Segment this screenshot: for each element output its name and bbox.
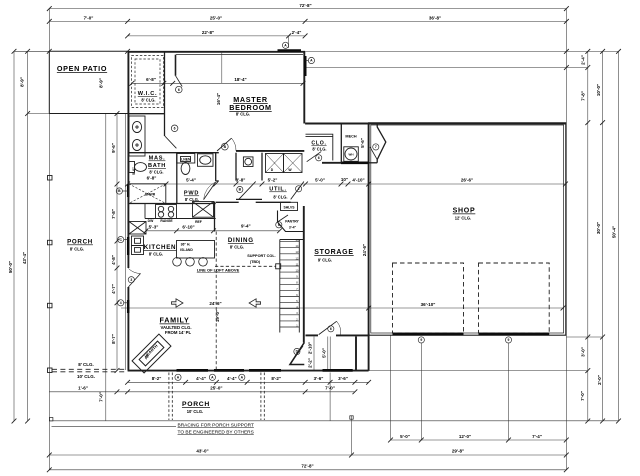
svg-text:A: A: [211, 376, 214, 380]
svg-text:9'-6": 9'-6": [111, 143, 116, 153]
svg-text:8'-2": 8'-2": [152, 376, 162, 381]
interior dim line y184: [125, 182, 568, 187]
wic stub wall: [175, 55, 177, 76]
right vertical dim x618.5: [616, 51, 621, 423]
bottom dim 72-8 y469.8: [47, 467, 569, 472]
room label pwd: [184, 191, 199, 202]
svg-text:B: B: [239, 188, 242, 192]
mech west wall: [340, 124, 342, 163]
wing interior jamb lines: [314, 337, 330, 371]
label line of loft: [197, 268, 240, 273]
refrigerator: [193, 202, 214, 218]
note bracing: [178, 423, 254, 436]
svg-text:6: 6: [318, 156, 320, 160]
entry door leaf: [370, 147, 377, 160]
svg-text:ISLAND: ISLAND: [180, 248, 193, 252]
porch ceiling labels: [77, 362, 95, 379]
bottom-right thin line y370.6: [369, 370, 588, 372]
svg-text:3: 3: [130, 278, 132, 282]
dim text 25'-0: [210, 16, 222, 21]
svg-text:4'-4": 4'-4": [196, 376, 206, 381]
svg-text:12' CLG.: 12' CLG.: [455, 216, 471, 221]
rotated dim 2'-4 right: [581, 55, 586, 65]
storage bottom wall: [306, 334, 369, 336]
svg-text:A: A: [284, 44, 287, 48]
svg-text:LINE OF LOFT ABOVE: LINE OF LOFT ABOVE: [197, 268, 240, 273]
svg-text:8' CLG.: 8' CLG.: [70, 247, 84, 252]
rotated dim 7'-0 right: [580, 391, 585, 401]
svg-text:PORCH: PORCH: [67, 239, 93, 246]
svg-text:16'-4": 16'-4": [216, 93, 221, 105]
svg-text:8' CLG.: 8' CLG.: [312, 147, 326, 152]
top wall window: [278, 49, 302, 52]
svg-text:LNEN: LNEN: [181, 158, 191, 162]
circled A right: [306, 57, 315, 63]
svg-text:36'-10": 36'-10": [421, 302, 436, 307]
svg-text:6: 6: [174, 127, 176, 131]
room label shop: [453, 208, 476, 221]
shop entry chamfer: [377, 124, 386, 163]
bedroom dim line 18-4: [130, 81, 306, 86]
dim text 72'-8 top: [299, 3, 311, 8]
range: [156, 205, 177, 219]
rotated dim 50'-4 far right: [612, 226, 617, 238]
svg-text:STORAGE: STORAGE: [314, 249, 353, 256]
svg-text:2'-4": 2'-4": [581, 55, 586, 65]
room label kitchen: [144, 244, 176, 257]
svg-text:24'-6": 24'-6": [209, 301, 221, 306]
clo door leaf: [307, 152, 322, 162]
svg-text:9'-4": 9'-4": [241, 224, 251, 229]
dim text 2'-4: [292, 30, 302, 35]
svg-text:6: 6: [178, 88, 180, 92]
svg-text:W: W: [288, 168, 292, 172]
house top wall: [128, 51, 306, 53]
hall south wall segments: [216, 201, 291, 203]
strip bottom wall: [322, 162, 341, 164]
porch posts squares left: [48, 176, 53, 373]
house left wall: [127, 52, 129, 371]
svg-text:2: 2: [298, 187, 300, 191]
svg-text:PANTRY: PANTRY: [285, 220, 299, 224]
room label mech: [345, 135, 356, 139]
room label family: [160, 316, 192, 336]
svg-text:FAMILY: FAMILY: [160, 316, 190, 325]
interior dim labels y181.5: [186, 177, 473, 183]
kitchen dim labels: [149, 224, 251, 230]
open patio outline: [49, 51, 127, 113]
shower: [129, 184, 166, 204]
svg-text:SHOP: SHOP: [453, 208, 476, 215]
svg-text:43'-4": 43'-4": [22, 252, 27, 264]
pantry shelves: [281, 202, 298, 210]
kitchen island: [177, 241, 215, 259]
label shwr: [145, 192, 156, 196]
dim text 22'-8: [202, 30, 214, 35]
rotated dim 3'-0 right: [581, 347, 586, 357]
svg-text:8' CLG.: 8' CLG.: [230, 244, 244, 249]
svg-text:5'-3": 5'-3": [149, 225, 159, 230]
dim text 18'-4 bedroom: [234, 77, 246, 82]
house bottom wall: [128, 370, 369, 372]
svg-text:REF: REF: [195, 220, 202, 224]
bath toilet: [129, 162, 147, 173]
svg-text:4'-8": 4'-8": [111, 255, 116, 265]
svg-text:43'-0": 43'-0": [196, 449, 208, 454]
svg-text:WH: WH: [349, 153, 354, 157]
symbol letters: [118, 44, 509, 380]
svg-text:5'-0": 5'-0": [315, 178, 325, 183]
svg-text:8'-9": 8'-9": [99, 78, 104, 88]
pwd door leaf: [204, 182, 216, 200]
svg-text:KITCHEN: KITCHEN: [144, 244, 176, 251]
svg-text:4'-7": 4'-7": [111, 284, 116, 294]
rotated dim 5'-0 bath: [132, 167, 136, 175]
rotated dim 50'-0 left: [8, 261, 13, 273]
circled 4 left wall: [118, 300, 128, 306]
svg-text:9: 9: [420, 338, 422, 342]
section arrows: [172, 299, 261, 307]
rotated dim 2'-0 right: [597, 375, 602, 385]
svg-text:7'-0": 7'-0": [580, 391, 585, 401]
svg-text:SHWR: SHWR: [145, 192, 156, 196]
svg-text:10' CLG.: 10' CLG.: [77, 374, 95, 379]
svg-text:BATH: BATH: [148, 163, 166, 169]
label shlvs: [283, 206, 295, 210]
pwd toilet: [181, 157, 191, 175]
svg-text:5'-4": 5'-4": [186, 178, 196, 183]
post dim row y440: [388, 438, 569, 443]
svg-text:24'-6": 24'-6": [362, 244, 367, 256]
svg-text:B: B: [224, 145, 227, 149]
kitchen counter line: [145, 204, 216, 219]
svg-text:5'-6": 5'-6": [360, 138, 365, 148]
util south doors: [236, 182, 304, 200]
svg-text:5'-0": 5'-0": [132, 167, 136, 175]
left interior vertical dim x117: [115, 111, 120, 373]
loft dashed lines: [215, 232, 276, 371]
svg-text:UTIL.: UTIL.: [269, 187, 286, 193]
svg-text:RANGE: RANGE: [160, 219, 173, 223]
svg-text:3'-8": 3'-8": [236, 178, 246, 183]
post dim labels y437.6: [400, 434, 542, 439]
svg-text:7: 7: [375, 145, 377, 149]
svg-text:50'-4": 50'-4": [612, 226, 617, 238]
svg-text:7'-0": 7'-0": [325, 386, 335, 391]
right porch line y337: [566, 336, 602, 338]
right vertical dim x587.8: [585, 51, 590, 423]
svg-text:10' CLG.: 10' CLG.: [187, 409, 203, 414]
svg-text:3'-4": 3'-4": [289, 226, 297, 230]
rotated dim 7'-0 porch left: [99, 392, 104, 402]
left wall windows: [127, 184, 130, 313]
porch post ext lines bottom right: [391, 335, 509, 440]
svg-text:72'-8": 72'-8": [301, 464, 313, 469]
window dim labels y379.9: [152, 376, 348, 381]
circled 6 wic door: [171, 125, 178, 132]
dim line 22-8/2-4: [125, 34, 307, 49]
garage door dashed tracks: [393, 263, 550, 333]
svg-text:6: 6: [278, 223, 280, 227]
small line y426: [52, 425, 177, 427]
svg-text:6'-8": 6'-8": [147, 175, 157, 180]
svg-text:10'-0": 10'-0": [596, 84, 601, 96]
rotated dim 7'-8 right: [581, 91, 586, 101]
section dim 24'-6: [209, 301, 221, 306]
svg-text:8' CLG.: 8' CLG.: [149, 170, 163, 175]
room label clo: [311, 141, 326, 152]
svg-text:C: C: [119, 238, 122, 242]
svg-text:D: D: [271, 168, 274, 172]
circled B left wall: [116, 188, 127, 194]
svg-text:FROM 14' PL: FROM 14' PL: [165, 330, 192, 335]
rotated dim 8'-9 left: [20, 77, 25, 87]
svg-text:PORCH: PORCH: [182, 401, 210, 408]
bedroom south wall: [236, 150, 304, 152]
wic right wall: [164, 52, 166, 136]
family se corner chamfer: [290, 343, 304, 365]
dim row y391.8: [49, 389, 357, 394]
se door leaf: [293, 346, 303, 360]
rotated dims SE corner: [307, 342, 326, 368]
svg-text:25'-0": 25'-0": [210, 386, 222, 391]
rotated dim 43'-4 left: [22, 252, 27, 264]
section dim 36'-10: [421, 302, 436, 307]
bath vanity: [129, 116, 145, 156]
room label open patio: [57, 64, 107, 73]
circled B hall door: [237, 186, 243, 192]
storage sw door: [319, 321, 341, 334]
svg-text:4: 4: [120, 301, 122, 305]
bedroom right wall window: [304, 56, 307, 76]
pantry door leaf: [278, 215, 289, 222]
stair left rail: [279, 240, 281, 333]
window dim row y382: [125, 380, 371, 385]
svg-text:4'-10": 4'-10": [352, 178, 364, 183]
wing east wall: [355, 337, 357, 371]
stair treads: [280, 242, 300, 327]
svg-text:OPEN PATIO: OPEN PATIO: [57, 64, 107, 73]
fridge boxes: [132, 236, 144, 255]
svg-text:8' CLG.: 8' CLG.: [149, 252, 163, 257]
stair tread numbers: [296, 238, 299, 327]
hall water heater: [243, 157, 253, 167]
rotated dim 16'-4 bedroom: [216, 93, 221, 105]
svg-text:5'-0": 5'-0": [400, 434, 410, 439]
svg-text:2'-4": 2'-4": [292, 30, 302, 35]
dim labels y389.3: [78, 386, 335, 391]
extension line right x566: [565, 9, 567, 470]
svg-text:A: A: [241, 376, 244, 380]
svg-text:8'-7": 8'-7": [111, 334, 116, 344]
dim row y455: [47, 453, 569, 458]
svg-text:1'-6": 1'-6": [78, 386, 88, 391]
svg-text:8' CLG.: 8' CLG.: [236, 112, 250, 117]
storage-shop divider wall: [368, 123, 370, 371]
linen closet: [177, 154, 195, 164]
room label porch left: [67, 239, 93, 252]
window ext line bedroom: [221, 52, 223, 84]
svg-text:9' CLG.: 9' CLG.: [318, 258, 332, 263]
rotated dim 19'-0 family: [215, 310, 220, 322]
svg-text:2'-2": 2'-2": [307, 358, 312, 368]
svg-text:SHLVS: SHLVS: [283, 206, 295, 210]
svg-text:8' CLG.: 8' CLG.: [273, 195, 287, 200]
svg-text:(TBD): (TBD): [250, 260, 261, 264]
bedroom right wall: [303, 52, 305, 124]
rotated dim 10'-0 right: [596, 84, 601, 96]
label hearth: [143, 343, 158, 360]
section line y308: [121, 306, 565, 311]
svg-text:SUPPORT COL.: SUPPORT COL.: [247, 254, 275, 258]
rotated dim 24'-6 storage: [362, 244, 367, 256]
circled A top: [282, 42, 288, 48]
dim text 7'-0: [84, 16, 94, 21]
svg-text:12'-0": 12'-0": [459, 434, 471, 439]
svg-text:W.I.C.: W.I.C.: [138, 91, 157, 97]
svg-text:8' CLG.: 8' CLG.: [141, 98, 155, 103]
circled 2 util door: [296, 186, 302, 192]
label support col: [247, 254, 275, 264]
strip top wall: [305, 123, 566, 125]
svg-text:6'-8": 6'-8": [146, 77, 156, 82]
room label porch bottom: [182, 401, 210, 414]
svg-text:19'-0": 19'-0": [215, 310, 220, 322]
svg-text:4'-4": 4'-4": [227, 376, 237, 381]
svg-text:3'-0": 3'-0": [581, 347, 586, 357]
left extension lines: [12, 49, 30, 424]
dim labels y452.3: [196, 449, 464, 454]
label dw range: [148, 219, 202, 224]
util washer dryer: [266, 154, 303, 173]
svg-text:B: B: [118, 189, 121, 193]
svg-text:72'-8": 72'-8": [299, 3, 311, 8]
garage door bars: [393, 333, 550, 336]
rotated dim 30'-0 right: [596, 222, 601, 234]
dim line 72'-8 top: [47, 6, 569, 11]
room label wic: [138, 77, 157, 103]
circled B bedroom door: [221, 143, 228, 150]
svg-text:DW: DW: [148, 219, 154, 223]
wic door leaf: [165, 136, 177, 148]
room label master bedroom: [229, 95, 271, 117]
room label util: [269, 187, 287, 200]
label island: [180, 243, 193, 252]
hall west wall: [236, 153, 262, 181]
bath pwd north wall: [128, 152, 219, 154]
svg-text:29'-8": 29'-8": [452, 449, 464, 454]
svg-text:7'-8": 7'-8": [581, 91, 586, 101]
circled 6 clo: [316, 155, 322, 161]
mech water heater: [344, 147, 359, 162]
bottom wall windows: [177, 369, 353, 372]
circled 9 posts: [418, 337, 511, 343]
island stools: [173, 258, 208, 267]
room label dining: [228, 237, 254, 249]
svg-text:9: 9: [508, 338, 510, 342]
corner marker squares: [50, 416, 354, 421]
dim text 36'-8: [429, 16, 441, 21]
label washer dryer: [271, 168, 293, 172]
wic closet dashed: [132, 56, 164, 108]
circled 6 bedroom nook door: [176, 86, 183, 93]
svg-text:2'-10": 2'-10": [307, 342, 312, 354]
bath hall wall x176.8: [176, 153, 178, 204]
dim line 7-0/25-0/36-8: [47, 19, 569, 24]
pwd east wall: [216, 153, 219, 181]
circled C left wall: [118, 237, 128, 243]
circled 7 shop entry: [373, 144, 379, 150]
svg-text:5'-2": 5'-2": [268, 178, 278, 183]
svg-text:25'-0": 25'-0": [210, 16, 222, 21]
circled 6 pantry: [276, 222, 282, 228]
svg-text:22'-8": 22'-8": [202, 30, 214, 35]
svg-text:6'-10": 6'-10": [182, 225, 194, 230]
porch roof line x105.8: [105, 114, 107, 422]
label linen: [181, 158, 191, 162]
circled A windows bottom: [175, 374, 245, 380]
svg-text:8' CLG.: 8' CLG.: [185, 197, 199, 202]
svg-text:A: A: [310, 59, 313, 63]
svg-text:7'-8": 7'-8": [111, 209, 116, 219]
patio bottom connector: [28, 113, 50, 115]
circled D se door: [294, 348, 300, 354]
svg-text:5'-0": 5'-0": [321, 348, 326, 358]
stair top wall: [280, 239, 304, 241]
clo box: [306, 134, 333, 160]
right vertical dim x602.6: [600, 51, 605, 423]
svg-text:BRACING FOR PORCH SUPPORT: BRACING FOR PORCH SUPPORT: [178, 423, 254, 429]
patio top dim connector: [14, 49, 130, 54]
right eave line y51: [305, 49, 621, 54]
svg-text:7'-0": 7'-0": [84, 16, 94, 21]
svg-text:18'-4": 18'-4": [234, 77, 246, 82]
svg-text:36" H.: 36" H.: [181, 243, 191, 247]
svg-text:2'-0": 2'-0": [597, 375, 602, 385]
circled 6 storage door: [328, 326, 334, 332]
label wh: [349, 153, 354, 157]
wic south wall: [128, 113, 165, 115]
svg-text:TO BE ENGINEERED BY OTHERS: TO BE ENGINEERED BY OTHERS: [178, 430, 254, 436]
kitchen sink: [129, 222, 146, 235]
porch slab line y421: [49, 420, 618, 422]
left wall door: [128, 269, 140, 288]
svg-text:26'-6": 26'-6": [461, 178, 473, 183]
svg-text:DINING: DINING: [228, 237, 254, 244]
rotated dim 5'-6 mech: [360, 138, 365, 148]
room label storage: [314, 249, 353, 263]
svg-text:36'-8": 36'-8": [429, 16, 441, 21]
svg-text:7'-0": 7'-0": [99, 392, 104, 402]
extension line left x49: [48, 9, 50, 470]
kitchen north wall: [128, 203, 216, 205]
wic door to bedroom: [176, 76, 183, 87]
svg-text:3'-6": 3'-6": [314, 376, 324, 381]
svg-text:MECH: MECH: [345, 135, 356, 139]
porch dashed posts left: [169, 373, 264, 421]
pwd vanity: [198, 154, 214, 167]
hearth fireplace: [132, 334, 171, 373]
svg-text:30'-0": 30'-0": [596, 222, 601, 234]
svg-text:MAS.: MAS.: [149, 156, 166, 162]
svg-text:A: A: [177, 376, 180, 380]
pantry walls: [278, 211, 304, 232]
right line y67.5: [305, 65, 590, 70]
dim 6'-8 bath: [147, 175, 157, 180]
bedroom door arc: [217, 138, 236, 151]
shop outline double wall: [369, 123, 566, 335]
label pantry: [285, 220, 299, 230]
